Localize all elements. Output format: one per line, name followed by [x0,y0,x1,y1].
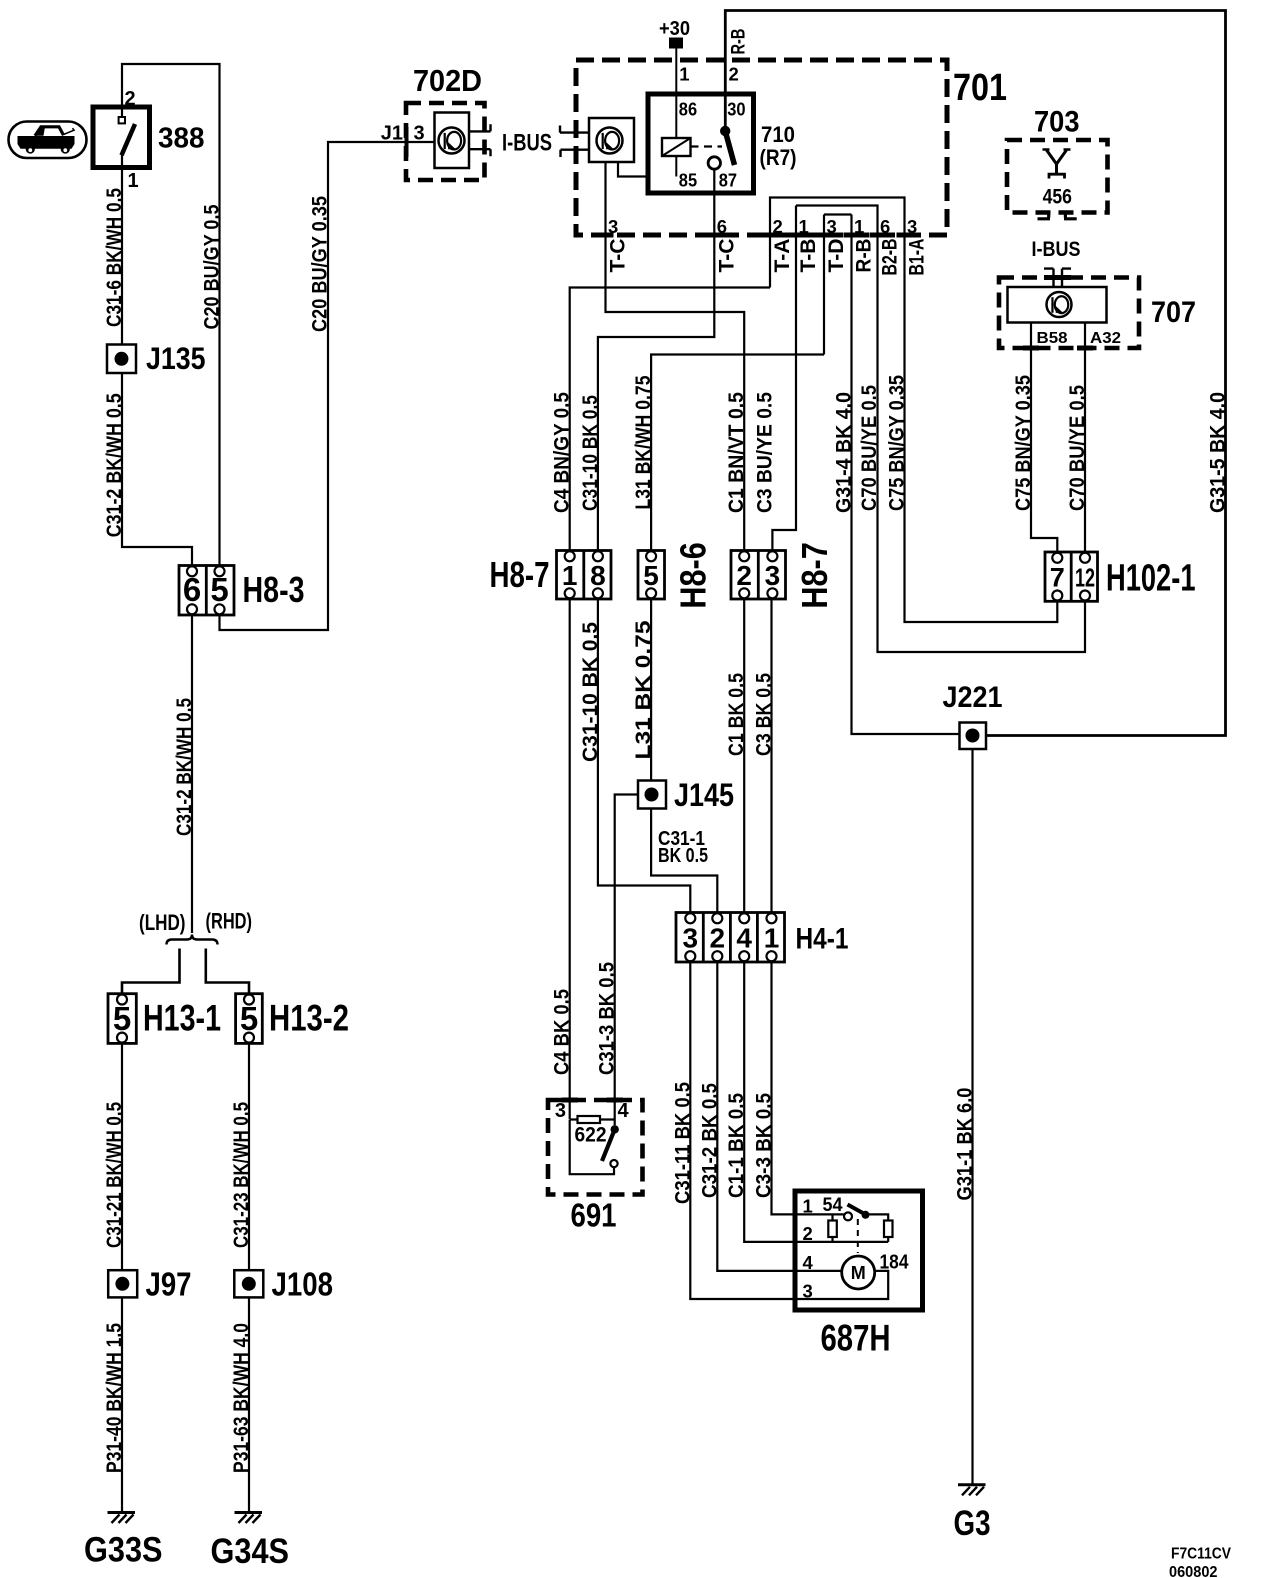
svg-text:M: M [851,1263,866,1283]
svg-text:C31-2 BK/WH 0.5: C31-2 BK/WH 0.5 [103,393,126,537]
687H switch output wire [866,1214,889,1220]
switch 622 resistor element [570,1118,615,1120]
svg-text:C3-3 BK 0.5: C3-3 BK 0.5 [753,1093,776,1198]
701 I-BUS stub upper [560,126,589,133]
wire T-D to H8-6 pin5 (L31) [651,355,824,551]
687H pin4 internal wire [795,1270,842,1272]
junction J108 box [234,1270,263,1297]
connector H13-1 circles [117,995,127,1005]
svg-text:C20 BU/GY 0.5: C20 BU/GY 0.5 [201,204,224,329]
svg-text:G31-5 BK 4.0: G31-5 BK 4.0 [1207,392,1230,513]
svg-text:30: 30 [727,99,745,119]
svg-text:B2-B: B2-B [879,239,902,276]
wire H8-7 pin8 down to H4-1 pin 3 (C31-10 BK 0.5) [598,599,690,913]
wire fork right branch to H13-2 [206,949,249,994]
junction J97 dot [115,1277,129,1291]
ground symbol G3 [958,1483,986,1486]
module 707 inner unit box [1008,287,1107,323]
svg-text:5: 5 [240,1000,258,1037]
connector H102-1 box [1045,552,1098,601]
svg-text:060802: 060802 [1169,1564,1218,1578]
svg-text:3: 3 [414,123,425,145]
switch 622 lower loop wire [570,1120,614,1175]
svg-text:6: 6 [717,216,727,237]
svg-text:H8-3: H8-3 [243,569,305,610]
svg-text:R-B: R-B [853,239,876,273]
svg-text:C1 BK 0.5: C1 BK 0.5 [725,673,748,756]
junction J108 dot [242,1277,256,1291]
svg-text:456: 456 [1043,186,1072,209]
wire fork left branch to H13-1 [122,949,180,994]
relay 710 switch pivot dot [720,126,730,136]
svg-text:3: 3 [555,1100,566,1122]
svg-text:I-BUS: I-BUS [502,130,552,157]
svg-text:J145: J145 [674,777,734,813]
svg-text:C1-1 BK 0.5: C1-1 BK 0.5 [725,1093,748,1198]
svg-text:C75 BN/GY 0.35: C75 BN/GY 0.35 [1012,375,1035,511]
svg-text:3: 3 [683,923,699,954]
wire T-A to H8-7 pin1 (C4 BN/GY) [570,288,770,551]
687H switch arm [848,1205,866,1215]
svg-text:G34S: G34S [211,1532,290,1571]
svg-text:2: 2 [710,923,726,954]
691 pin ticks [562,1098,578,1103]
702D I-BUS stub lower [469,149,491,156]
wire H13-1 to J97 (C31-21 BK/WH 0.5) [121,1043,123,1270]
svg-text:H8-7: H8-7 [490,554,550,595]
svg-text:C75 BN/GY 0.35: C75 BN/GY 0.35 [886,375,909,511]
module 702D inner unit box [435,113,470,169]
connector H8-7 first circles [565,551,575,561]
relay 710 switch input wire [724,94,727,127]
svg-text:C31-3 BK 0.5: C31-3 BK 0.5 [596,962,619,1075]
wire 701 bus unit to pin3 T-C [606,162,745,551]
701 internal link inner T-D to R-B [824,215,852,355]
module 707 dashed box [999,278,1139,349]
svg-text:(LHD): (LHD) [139,910,186,935]
svg-text:2: 2 [729,64,739,85]
svg-text:3: 3 [827,216,837,237]
svg-text:T-A: T-A [771,239,794,273]
svg-text:1: 1 [854,216,864,237]
svg-text:85: 85 [679,171,697,191]
703 bottom stub right [1064,213,1077,219]
antenna symbol 456 [1047,150,1067,164]
svg-text:3: 3 [608,216,618,237]
687H mech dashed link [857,1219,859,1253]
687H pin1 internal wire [795,1213,844,1215]
687H switch contact circle [844,1212,852,1220]
connector H8-6 box [638,551,665,600]
svg-text:702D: 702D [413,63,482,98]
wire from 388 pin2 loop up-over to H8-3 pin 5 (C20 BU/GY 0.5) [122,64,220,566]
module 702D dashed box [406,103,485,180]
switch 622 arm [602,1129,615,1161]
svg-text:C3 BK 0.5: C3 BK 0.5 [753,673,776,756]
svg-text:J97: J97 [146,1266,192,1303]
707 pin ticks [1023,346,1039,351]
relay 710 box [648,94,754,193]
wire H8-3 pin5 to 702D (C20 BU/GY 0.35) [220,142,435,630]
svg-text:87: 87 [719,171,737,191]
junction J221 dot [966,729,980,743]
702D I-BUS stub upper [469,124,491,131]
svg-text:687H: 687H [821,1318,891,1359]
power feed +30 square [669,38,683,49]
module 702D bus symbol [439,128,465,154]
connector H102-1 circles [1052,553,1062,563]
wire J145 branch to 622 pin 4 (C31-3 BK 0.5) [615,795,638,1126]
wire H102-1 pin12 up to 707 A32 (C70 BU/YE 0.5) [1084,323,1086,553]
junction J145 box [638,781,666,809]
701 I-BUS stub lower [561,150,590,157]
svg-text:P31-40 BK/WH 1.5: P31-40 BK/WH 1.5 [103,1323,126,1473]
svg-text:H102-1: H102-1 [1106,558,1196,600]
wire relay pin 87 to H8-7 pin 8 (T-C / C31-10) [598,169,714,550]
connector H4-1 box [676,913,785,963]
svg-text:+30: +30 [659,18,690,40]
svg-text:BK 0.5: BK 0.5 [658,845,708,867]
wire H4-1 pin3 to 687H pin 3 (C31-11 BK 0.5) [690,962,795,1299]
svg-text:C4 BN/GY 0.5: C4 BN/GY 0.5 [551,392,574,513]
ground symbol G33S [108,1511,136,1514]
svg-text:J221: J221 [943,681,1003,714]
svg-text:3: 3 [907,216,917,237]
svg-text:C31-6 BK/WH 0.5: C31-6 BK/WH 0.5 [103,188,126,327]
connector H8-7 first box [557,551,612,600]
wire H13-2 to J108 (C31-23 BK/WH 0.5) [248,1043,250,1270]
svg-text:2: 2 [773,216,783,237]
svg-text:C1 BN/VT 0.5: C1 BN/VT 0.5 [725,392,748,513]
switch 388 contact square [121,107,123,117]
701 pin ticks on dashed edge [598,233,614,238]
svg-text:C31-2 BK/WH 0.5: C31-2 BK/WH 0.5 [173,698,196,836]
wire H102-1 pin7 up to 707 B58 (C75 BN/GY 0.35) [1031,323,1057,553]
svg-text:5: 5 [643,560,659,591]
svg-text:R-B: R-B [729,29,750,55]
wire H4-1 pin2 to 687H pin 4 (C31-2 BK 0.5) [717,962,795,1271]
connector H13-2 circles [244,995,254,1005]
svg-text:2: 2 [736,560,752,591]
connector H13-1 box [108,994,136,1044]
svg-text:C70 BU/YE 0.5: C70 BU/YE 0.5 [1066,385,1089,511]
svg-text:L31 BK/WH 0.75: L31 BK/WH 0.75 [632,375,655,509]
wire H8-3 pin6 down to LHD/RHD fork (C31-2 BK/WH 0.5) [191,615,193,933]
switch 388 (glovebox light switch) box [93,107,150,168]
703 bottom stub left [1038,213,1051,219]
svg-text:T-C: T-C [715,239,738,273]
svg-text:1: 1 [764,923,780,954]
connector H8-7 second box [731,551,786,600]
svg-text:710: 710 [761,122,795,147]
701 internal link outer T-A to B1-A [770,198,1057,623]
svg-text:1: 1 [799,216,809,237]
fork brace symbol [167,935,218,945]
687H switch pivot dot [862,1211,870,1219]
wire 701 bus unit to relay coil [618,162,649,177]
svg-text:J135: J135 [146,340,206,376]
707 top edge tick [1044,275,1071,280]
switch 388 arm [122,124,136,155]
wire R-B pin1 down to J221 (G31-4 BK 4.0) [852,215,960,735]
module 701 dashed box [576,60,947,235]
svg-text:I-BUS: I-BUS [1032,238,1081,261]
svg-text:A32: A32 [1090,330,1121,347]
svg-text:B58: B58 [1037,330,1068,347]
relay 710 switch contact circle [708,157,720,169]
wire +30 to relay pin 1 [675,49,677,95]
svg-text:C31-10 BK 0.5: C31-10 BK 0.5 [579,395,602,511]
svg-text:C31-21 BK/WH 0.5: C31-21 BK/WH 0.5 [103,1102,126,1248]
svg-text:(RHD): (RHD) [206,909,253,934]
wire J108 to ground G34S (P31-63 BK/WH 4.0) [248,1297,250,1512]
svg-text:C4 BK 0.5: C4 BK 0.5 [551,989,574,1075]
svg-text:6: 6 [183,571,201,608]
relay 710 coil [662,138,691,156]
relay 710 switch arm [725,131,734,165]
svg-text:54: 54 [823,1195,843,1216]
svg-text:C20 BU/GY 0.35: C20 BU/GY 0.35 [309,196,332,332]
wire H8-7 pin3 down to H4-1 pin 1 (C3 BK 0.5) [770,599,772,913]
svg-text:H8-6: H8-6 [673,542,714,608]
svg-text:5: 5 [210,571,228,608]
svg-text:707: 707 [1151,296,1196,329]
junction J135 box [107,345,136,374]
svg-text:T-D: T-D [825,239,848,273]
svg-text:C70 BU/YE 0.5: C70 BU/YE 0.5 [858,385,881,511]
svg-text:C31-11 BK 0.5: C31-11 BK 0.5 [671,1082,694,1204]
svg-text:388: 388 [158,123,205,155]
svg-text:H13-2: H13-2 [269,998,349,1039]
relay 710 mech dashed link [691,145,723,147]
connector H8-6 circles [646,551,656,561]
connector H13-2 box [236,994,263,1044]
pin J1 tick on 702D [405,127,409,157]
wire J135 to H8-3 pin 6 (C31-2 BK/WH 0.5) [122,373,192,566]
wire H8-6 pin5 down through J145 to H4-1 pin 2 (L31 BK 0.75) [651,599,717,913]
car icon (vehicle symbol) [9,122,87,159]
svg-text:1: 1 [679,64,689,85]
svg-text:701: 701 [953,67,1007,109]
junction J135 dot [115,352,129,366]
junction J221 box [960,723,987,750]
connector H8-3 pin circles [187,566,197,576]
svg-text:B1-A: B1-A [906,239,929,276]
junction J97 box [108,1270,137,1297]
wire H4-1 pin4 to 687H pin 2 (C1-1 BK 0.5) [744,962,795,1242]
687H left resistor [831,1214,833,1220]
module 691 dashed box [548,1100,643,1195]
svg-text:2: 2 [125,88,136,110]
switch 622 contact circle [610,1160,617,1167]
ground symbol G34S [235,1511,263,1514]
svg-text:691: 691 [571,1197,617,1234]
svg-text:G31-1 BK 6.0: G31-1 BK 6.0 [954,1088,977,1201]
connector H8-3 box [179,566,234,616]
svg-text:T-C: T-C [607,239,630,273]
svg-text:3: 3 [765,560,781,591]
svg-text:86: 86 [679,99,697,119]
svg-text:6: 6 [880,216,890,237]
svg-text:J108: J108 [272,1266,334,1303]
svg-text:G33S: G33S [84,1531,163,1570]
svg-text:H4-1: H4-1 [796,923,849,956]
svg-text:G3: G3 [954,1504,991,1543]
wire T-B to H8-7 pin3 (C3 BU/YE) [772,206,796,551]
687H right resistor [884,1221,893,1238]
heater control 687H box [795,1191,923,1310]
relay 710 coil wire [675,94,677,177]
module 701 bus unit box [589,118,634,162]
wire H4-1 pin1 to 687H pin 1 (C3-3 BK 0.5) [772,962,796,1214]
wire H8-7 pin2 down to H4-1 pin 4 (C1 BK 0.5) [743,599,745,913]
svg-text:(R7): (R7) [760,145,797,170]
junction J145 dot [645,788,659,802]
svg-text:T-B: T-B [797,239,820,273]
svg-text:C31-10 BK 0.5: C31-10 BK 0.5 [579,622,602,762]
svg-text:P31-63 BK/WH 4.0: P31-63 BK/WH 4.0 [230,1323,253,1473]
svg-text:5: 5 [113,1000,131,1037]
svg-text:H8-7: H8-7 [794,542,835,608]
svg-text:1: 1 [562,560,578,591]
svg-text:622: 622 [575,1124,607,1147]
svg-text:7: 7 [1050,563,1065,593]
svg-text:703: 703 [1034,106,1080,139]
wire relay pin2 R-B top loop to J221 right [725,11,1225,736]
svg-text:G31-4 BK 4.0: G31-4 BK 4.0 [833,392,856,513]
svg-text:F7C11CV: F7C11CV [1171,1546,1231,1563]
701 internal link middle T-B to B2-B [796,206,1085,653]
wire H8-7 pin1 down to 622 pin 3 (C4 BK 0.5) [569,599,571,1119]
module 707 bus symbol [1047,292,1072,317]
wire J97 to ground G33S (P31-40 BK/WH 1.5) [121,1297,123,1512]
module 703 dashed box [1007,140,1108,213]
svg-text:12: 12 [1075,563,1095,593]
svg-text:8: 8 [590,560,606,591]
687H pin3 internal wire [795,1271,888,1299]
connector H8-7 second circles [739,551,749,561]
svg-text:J1: J1 [381,123,403,145]
svg-text:C3 BU/YE 0.5: C3 BU/YE 0.5 [753,392,776,513]
svg-text:L31 BK 0.75: L31 BK 0.75 [632,620,655,759]
687H pin2 internal wire [795,1241,888,1243]
687H motor circle [842,1256,875,1289]
707 I-BUS stub [1044,269,1071,287]
switch 622 pivot dot [611,1125,619,1133]
svg-text:C31-2 BK 0.5: C31-2 BK 0.5 [698,1083,721,1198]
wire J221 to ground G3 (G31-1 BK 6.0) [971,749,973,1485]
svg-text:1: 1 [128,170,139,192]
svg-text:4: 4 [736,923,752,954]
svg-text:H13-1: H13-1 [143,998,221,1039]
svg-text:4: 4 [618,1100,630,1122]
connector H4-1 circles [685,913,695,923]
wire 388 pin1 down to J135 (C31-6 BK/WH 0.5) [121,168,123,345]
module 701 bus symbol [597,128,623,154]
svg-text:C31-23 BK/WH 0.5: C31-23 BK/WH 0.5 [230,1102,253,1248]
